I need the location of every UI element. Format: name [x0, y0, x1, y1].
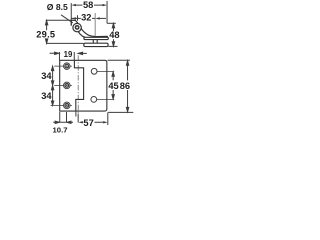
dimension 32 text	[81, 13, 91, 23]
dimension 19 left arrow	[50, 52, 59, 54]
dimension 19 text	[64, 50, 73, 59]
upper flange bar	[84, 37, 108, 39]
dimension 19 left witness	[58, 52, 60, 60]
hinge axis centreline	[77, 55, 79, 113]
lever tab	[71, 20, 78, 25]
centreline witness extension for 57	[77, 114, 79, 123]
dimension 45 down arrow	[112, 90, 114, 99]
base flange	[84, 43, 108, 46]
dimension 86 up arrow	[126, 61, 128, 81]
svg-text:48: 48	[109, 30, 119, 40]
witness 86 top	[108, 59, 130, 61]
witness 86 bottom	[108, 111, 133, 113]
dimension 45 up arrow	[112, 72, 114, 80]
dimension 34 lower line with arrows	[51, 86, 53, 106]
dimension 32 right arrow (outside)	[95, 17, 99, 19]
dimension 19 right witness	[73, 52, 75, 60]
pivot centre witness tick	[77, 15, 79, 20]
screw hole 1	[54, 63, 72, 70]
dimension 57 text	[83, 118, 93, 128]
step edge witness extension	[75, 112, 77, 117]
leader line from label to pivot	[61, 15, 73, 23]
pivot hole circle	[75, 26, 78, 29]
stud right line	[96, 40, 98, 44]
dimension 48 down arrow	[112, 39, 114, 46]
dimension 10.7 arrows and line	[53, 121, 73, 123]
pivot boss circle	[73, 23, 81, 31]
svg-text:Ø 8.5: Ø 8.5	[47, 2, 68, 12]
label diameter 8.5	[47, 2, 68, 12]
dimension 58 left arrow	[71, 4, 75, 6]
dimension 86 down arrow	[126, 90, 128, 112]
dimension 34 upper line with arrows	[51, 66, 53, 85]
dimension 86 text	[120, 81, 130, 91]
dimension 34 lower text	[41, 91, 52, 101]
svg-text:45: 45	[108, 81, 118, 91]
lever arm top edge	[81, 28, 107, 37]
knuckle step profile	[74, 60, 83, 111]
dimension 29.5 up arrow	[45, 21, 47, 31]
svg-text:57: 57	[83, 118, 93, 128]
witness 45 bottom	[97, 98, 114, 100]
dimension 57 left arrow	[78, 121, 82, 123]
plate outline	[60, 60, 107, 111]
svg-text:34: 34	[41, 91, 52, 101]
svg-text:86: 86	[120, 81, 130, 91]
dimension 58 right arrow	[103, 4, 107, 6]
stud left line	[92, 40, 94, 44]
dimension 32 line	[72, 17, 96, 19]
screw hole 2	[54, 82, 72, 89]
dimension 57 line	[82, 121, 104, 123]
dimension 29.5 text	[36, 29, 55, 39]
lever arm bottom edge	[78, 31, 85, 37]
svg-text:19: 19	[64, 50, 73, 59]
dimension 29.5 down arrow	[45, 39, 47, 44]
witness line 48 bottom	[109, 45, 118, 47]
witness 45 top	[97, 71, 114, 73]
glass hole upper	[91, 68, 97, 74]
witness 10.7 left	[59, 112, 61, 123]
dimension 58 line	[75, 4, 103, 6]
dimension 29.5 witness top	[46, 19, 76, 21]
svg-text:29.5: 29.5	[36, 29, 55, 39]
witness line 32 right	[94, 13, 96, 36]
witness line 48 top horizontal	[107, 22, 116, 24]
svg-text:58: 58	[83, 0, 93, 10]
witness 57 right	[107, 112, 109, 125]
svg-text:10.7: 10.7	[53, 126, 68, 134]
dimension 10.7 text	[53, 126, 68, 135]
dimension 32 left arrow	[72, 17, 76, 19]
svg-text:34: 34	[41, 71, 52, 81]
dimension 57 right arrow	[103, 121, 107, 123]
dimension 34 upper text	[41, 71, 52, 81]
dimension 45 text	[108, 81, 118, 91]
dimension 19 right arrow	[78, 52, 87, 54]
dimension 48 up arrow	[112, 24, 114, 32]
dimension 48 text	[109, 30, 119, 40]
glass hole lower	[91, 97, 97, 103]
witness line right (58 right, 48 top corner)	[106, 1, 108, 23]
screw hole 3	[51, 102, 72, 109]
svg-text:32: 32	[81, 13, 91, 23]
witness line left (58 left / lever tab edge)	[70, 3, 72, 26]
dimension 29.5 witness bottom	[46, 42, 84, 44]
witness 10.7 right	[66, 112, 68, 123]
dimension 58 text	[83, 0, 93, 10]
